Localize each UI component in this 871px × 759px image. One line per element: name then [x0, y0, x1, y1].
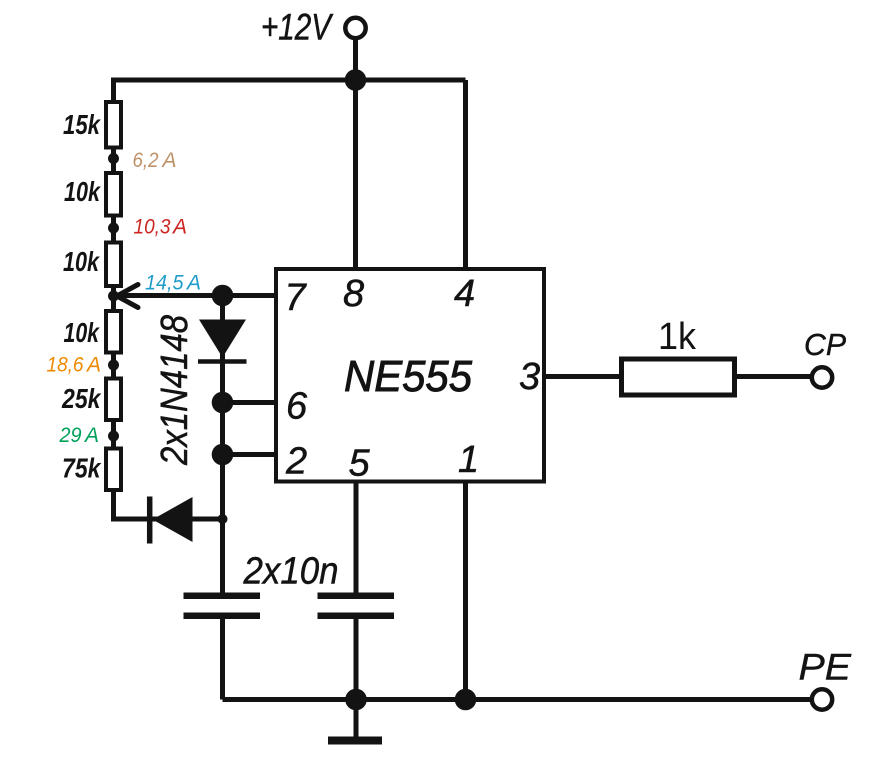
svg-text:1: 1	[458, 439, 479, 481]
diode D2 (bottom left, pointing left)	[150, 497, 193, 544]
svg-text:15k: 15k	[63, 109, 101, 140]
svg-text:2x10n: 2x10n	[243, 551, 339, 593]
wire top horizontal	[111, 78, 466, 83]
wire pin 7	[116, 293, 274, 298]
svg-text:7: 7	[285, 277, 308, 319]
svg-text:6,2: 6,2	[133, 149, 159, 172]
svg-text:2: 2	[285, 441, 307, 483]
node dot arrow junction	[108, 291, 119, 302]
wire pin 5 to cap	[354, 484, 359, 593]
svg-text:A: A	[171, 216, 187, 239]
wire pin 2	[223, 452, 275, 457]
resistor R7 1k	[622, 316, 735, 395]
svg-text:4: 4	[454, 273, 475, 315]
resistor R5 25k	[61, 379, 121, 421]
wire pin 3	[546, 374, 619, 379]
svg-text:A: A	[85, 354, 101, 377]
resistor R4 10k	[64, 311, 122, 353]
capacitor C2	[318, 593, 395, 620]
ground	[328, 737, 382, 745]
wire bottom-left to diode	[111, 517, 223, 522]
capacitor C1	[184, 593, 261, 620]
node dot 4	[108, 431, 119, 442]
svg-text:29: 29	[59, 424, 82, 447]
svg-text:A: A	[185, 272, 201, 295]
wire left resistor chain	[111, 78, 116, 522]
resistor R1 15k	[63, 102, 121, 148]
svg-text:6: 6	[286, 386, 308, 428]
svg-text:A: A	[161, 149, 177, 172]
terminal PE	[812, 689, 832, 709]
resistor R6 75k	[62, 449, 121, 491]
svg-text:NE555: NE555	[344, 352, 472, 401]
resistor R2 10k	[64, 173, 121, 216]
junction dot pin1 bottom	[455, 689, 477, 711]
junction dot top	[345, 69, 367, 91]
node dot 3	[108, 360, 119, 371]
svg-text:10k: 10k	[64, 317, 101, 348]
node dot 2	[108, 223, 119, 234]
wire pin 4 drop	[463, 80, 468, 267]
wire middle vertical upper	[220, 296, 225, 593]
wire ground stub	[354, 700, 359, 739]
svg-text:10,3: 10,3	[134, 216, 171, 239]
wire pin 1 drop	[463, 484, 468, 700]
svg-text:75k: 75k	[62, 453, 102, 484]
wire +12V drop / pin 8	[353, 40, 358, 267]
junction dot pin2	[212, 444, 234, 466]
wire resistor to CP	[737, 374, 812, 379]
resistor R3 10k	[63, 243, 121, 287]
wire bottom horizontal	[223, 697, 813, 702]
wire pin 6	[223, 400, 275, 405]
svg-text:2x1N4148: 2x1N4148	[154, 315, 196, 466]
svg-text:10k: 10k	[63, 246, 100, 277]
node dot small at diode junction	[218, 514, 228, 524]
arrow head at node	[117, 285, 138, 308]
svg-text:A: A	[83, 424, 99, 447]
svg-text:PE: PE	[799, 647, 853, 688]
svg-text:+12V: +12V	[261, 7, 334, 48]
IC U1 NE555 box	[276, 269, 544, 482]
terminal +12V	[345, 18, 365, 38]
svg-text:25k: 25k	[61, 383, 101, 414]
svg-text:10k: 10k	[64, 176, 101, 207]
junction dot ground	[345, 689, 367, 711]
diode D1 (pointing down)	[198, 320, 247, 362]
svg-text:CP: CP	[804, 327, 846, 362]
svg-text:3: 3	[519, 356, 540, 398]
node dot 1	[108, 153, 119, 164]
svg-text:1k: 1k	[658, 316, 697, 358]
svg-text:18,6: 18,6	[47, 354, 84, 377]
terminal CP	[812, 367, 832, 387]
wire middle vertical lower	[220, 619, 225, 700]
svg-text:14,5: 14,5	[145, 272, 184, 295]
wire below cap2	[354, 619, 359, 700]
junction dot pin7	[212, 285, 234, 307]
svg-text:5: 5	[349, 443, 371, 485]
junction dot pin6	[212, 392, 234, 414]
svg-text:8: 8	[343, 273, 364, 315]
